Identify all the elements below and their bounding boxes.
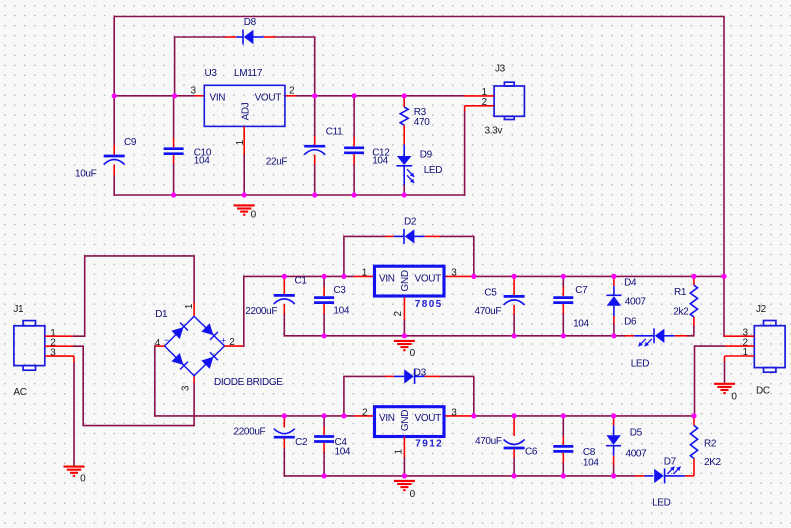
LED D6 [625, 335, 634, 337]
diode D8 [225, 36, 236, 38]
svg-text:C2: C2 [295, 437, 308, 448]
pin 3 7805 [446, 275, 474, 277]
wire top bottom rail [114, 194, 464, 196]
capacitor C2 2200uF [283, 416, 285, 428]
svg-text:3: 3 [181, 385, 192, 391]
wire VOUT rail [296, 95, 464, 97]
wire +5V feed top [114, 17, 724, 277]
svg-text:104: 104 [335, 447, 351, 458]
capacitor C8 [562, 416, 564, 437]
wire bottom ground rail [284, 475, 635, 477]
connector J1 [23, 321, 35, 326]
svg-text:VIN: VIN [379, 273, 395, 284]
svg-text:2: 2 [289, 86, 295, 97]
connector J3 [504, 82, 514, 86]
diode bridge D1 [165, 316, 225, 376]
node junctions top ground rail [171, 192, 176, 197]
svg-text:R2: R2 [704, 439, 717, 450]
pin 2 U3 [285, 95, 296, 97]
svg-text:D9: D9 [420, 150, 433, 161]
pin 4 bridge wire negative [155, 345, 165, 347]
svg-text:0: 0 [731, 391, 737, 402]
svg-text:104: 104 [573, 318, 589, 329]
IC U2 7912 [375, 407, 445, 437]
pin 1 7805 [354, 275, 373, 277]
pin 1 J2 ground wire [725, 355, 755, 357]
pin 2 J1 wire to bridge AC2 [45, 345, 74, 347]
capacitor C9 [113, 96, 115, 145]
node junctions bottom rail [282, 413, 287, 418]
svg-text:2: 2 [362, 407, 368, 418]
svg-text:U3: U3 [205, 68, 218, 79]
svg-text:C3: C3 [333, 285, 346, 296]
svg-text:470: 470 [414, 117, 430, 128]
resistor R3 [403, 96, 405, 107]
svg-text:C7: C7 [575, 285, 588, 296]
svg-text:D6: D6 [624, 316, 637, 327]
wire D8 right [275, 37, 315, 96]
svg-text:4007: 4007 [626, 448, 648, 459]
capacitor C6 470uF [513, 416, 515, 436]
svg-text:1: 1 [235, 139, 246, 145]
capacitor C4 [323, 416, 325, 427]
svg-text:0: 0 [410, 348, 416, 359]
ground 0 J2 [714, 383, 735, 385]
wire mid ground rail [284, 335, 625, 337]
svg-text:2: 2 [393, 311, 404, 317]
svg-text:D4: D4 [624, 278, 637, 289]
LED D7 [635, 475, 645, 477]
svg-text:470uF: 470uF [475, 306, 502, 317]
svg-text:104: 104 [583, 457, 599, 468]
pin 2 7912 [354, 415, 373, 417]
svg-text:LED: LED [424, 165, 443, 176]
svg-text:D3: D3 [414, 368, 427, 379]
wire D2 right [440, 236, 474, 276]
svg-text:C11: C11 [326, 127, 343, 138]
svg-text:R1: R1 [674, 287, 687, 298]
svg-text:D8: D8 [244, 17, 257, 28]
svg-text:3: 3 [50, 348, 56, 359]
svg-text:D7: D7 [664, 456, 677, 467]
svg-text:VOUT: VOUT [415, 413, 442, 424]
wire -unreg rail to 7912 [155, 415, 354, 417]
svg-text:D2: D2 [404, 217, 417, 228]
node junctions bottom ground rail [322, 473, 327, 478]
svg-text:AC: AC [13, 387, 26, 398]
svg-text:VOUT: VOUT [415, 273, 442, 284]
svg-text:D5: D5 [630, 428, 643, 439]
svg-text:VIN: VIN [379, 413, 395, 424]
svg-text:104: 104 [372, 155, 388, 166]
resistor R2 [693, 416, 695, 426]
svg-text:C1: C1 [295, 275, 308, 286]
svg-text:2k2: 2k2 [673, 306, 689, 317]
ground 0 J1 [64, 466, 85, 468]
svg-text:DIODE BRIDGE: DIODE BRIDGE [214, 377, 283, 388]
diode D2 [385, 235, 394, 237]
svg-text:2K2: 2K2 [704, 457, 722, 468]
connector J2 [764, 321, 776, 326]
capacitor C3 [323, 276, 325, 287]
svg-text:3: 3 [451, 267, 457, 278]
svg-text:10uF: 10uF [75, 169, 97, 180]
svg-text:3.3v: 3.3v [485, 125, 503, 136]
capacitor C11 22uF [314, 96, 316, 137]
ground 0 top [234, 204, 255, 206]
svg-text:470uF: 470uF [475, 436, 502, 447]
wire VIN rail [114, 95, 194, 97]
node junctions top rail [112, 93, 117, 98]
node junctions mid rail [282, 274, 287, 279]
svg-text:1: 1 [184, 303, 195, 309]
capacitor C1 2200uF [283, 276, 285, 294]
pin 2 bridge wire positive [225, 345, 244, 347]
pin 3 7912 [446, 415, 474, 417]
pin 3 J2 [724, 335, 754, 337]
wire +5V rail [474, 275, 724, 277]
svg-text:1: 1 [362, 267, 368, 278]
svg-text:3: 3 [451, 407, 457, 418]
svg-text:0: 0 [410, 489, 416, 500]
wire -12V rail [474, 415, 694, 417]
svg-text:2200uF: 2200uF [234, 426, 266, 437]
capacitor C7 [562, 276, 564, 287]
svg-text:VOUT: VOUT [255, 93, 282, 104]
svg-text:LED: LED [631, 358, 650, 369]
svg-text:LM117: LM117 [234, 68, 263, 79]
pin 1 J1 wire to bridge AC1 [45, 335, 74, 337]
pin 1 7912 ground wire [403, 437, 405, 459]
pin 2 J2 wire [724, 345, 754, 347]
pin 2 J3 wire [465, 105, 495, 107]
wire D2 loop [344, 236, 385, 276]
svg-text:3: 3 [191, 86, 197, 97]
svg-text:J2: J2 [756, 304, 767, 315]
svg-text:J1: J1 [13, 304, 24, 315]
svg-text:4007: 4007 [625, 297, 647, 308]
pin 2 7805 ground wire [403, 298, 405, 321]
pin 1 U3 ADJ wire [243, 126, 245, 155]
ground 0 bottom [394, 480, 415, 482]
capacitor C12 [353, 96, 355, 137]
svg-text:LED: LED [652, 498, 671, 509]
svg-text:D1: D1 [155, 309, 168, 320]
svg-text:0: 0 [80, 474, 86, 485]
LED D9 [403, 145, 405, 156]
svg-text:C9: C9 [124, 137, 137, 148]
IC U3 LM117 [204, 85, 285, 126]
svg-text:1: 1 [393, 449, 404, 455]
svg-text:0: 0 [251, 209, 257, 220]
pin 3 J1 ground wire [45, 355, 74, 357]
svg-text:22uF: 22uF [266, 156, 288, 167]
capacitor C10 [173, 96, 175, 138]
svg-text:C5: C5 [484, 287, 497, 298]
svg-text:104: 104 [333, 306, 349, 317]
svg-text:DC: DC [756, 385, 770, 396]
capacitor C5 470uF [513, 276, 515, 295]
wire D3 loop [344, 376, 385, 416]
diode D4 4007 [613, 276, 615, 286]
svg-text:−: − [164, 335, 169, 345]
IC U1 7805 [375, 266, 445, 296]
wire D8 loop [175, 37, 225, 96]
svg-text:J3: J3 [495, 63, 506, 74]
ground 0 mid [394, 340, 415, 342]
wire D3 right [440, 376, 474, 416]
diode D3 [385, 375, 394, 377]
svg-text:7805: 7805 [415, 299, 443, 310]
svg-text:GND: GND [400, 410, 411, 431]
svg-text:ADJ: ADJ [240, 102, 251, 120]
node junctions mid ground rail [322, 333, 327, 338]
svg-text:7912: 7912 [415, 438, 443, 449]
svg-text:VIN: VIN [210, 93, 226, 104]
svg-text:C6: C6 [525, 446, 538, 457]
wire +unreg rail to 7805 [244, 275, 354, 277]
svg-text:4: 4 [155, 338, 161, 349]
wire right vertical to J2 pin 3 [723, 276, 725, 336]
pin 3 U3 [194, 95, 204, 97]
svg-text:2200uF: 2200uF [245, 306, 277, 317]
svg-text:GND: GND [400, 270, 411, 291]
svg-text:+: + [221, 336, 226, 346]
diode D5 4007 [613, 416, 615, 426]
pin 1 J3 [464, 95, 494, 97]
resistor R1 [693, 276, 695, 285]
svg-text:104: 104 [194, 155, 210, 166]
